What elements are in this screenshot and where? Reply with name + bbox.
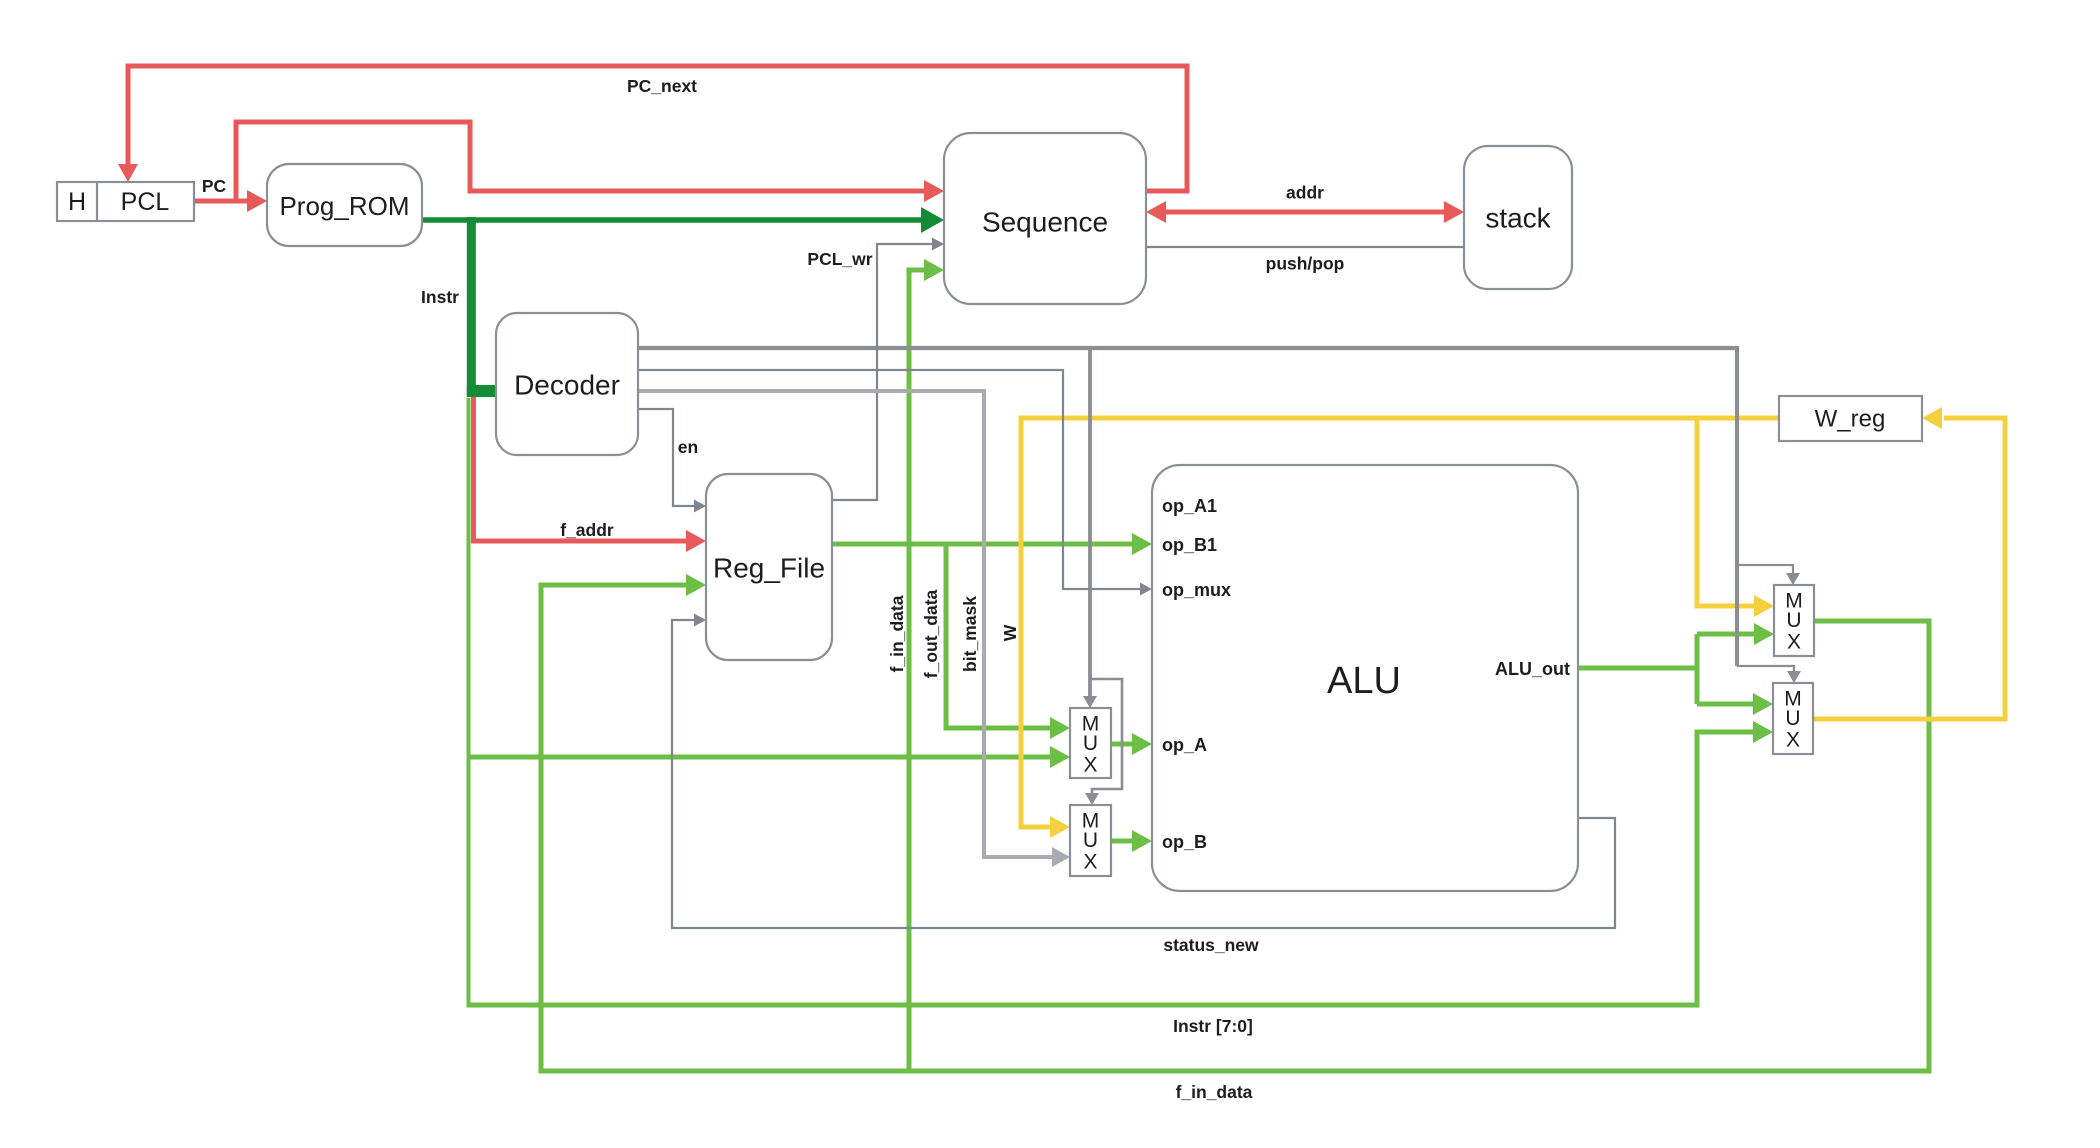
svg-text:W: W <box>1000 624 1020 641</box>
svg-text:op_A1: op_A1 <box>1162 496 1217 516</box>
svg-text:f_addr: f_addr <box>560 520 614 540</box>
arrowhead select into MUX1 top <box>1083 696 1097 708</box>
arrowhead Instr into Sequence <box>921 207 944 233</box>
svg-text:PC: PC <box>202 176 227 196</box>
arrowhead Instr literal into MUX4 <box>1753 721 1773 743</box>
wire W (yellow, W_reg to MUX2 and MUX3) <box>1021 418 1779 827</box>
arrowhead W into MUX3 <box>1754 595 1774 617</box>
arrowhead f_in_data into Reg_File <box>686 574 706 596</box>
wire ALU_out (light green, ALU to MUX3 and MUX4) <box>1578 634 1754 704</box>
svg-text:f_in_data: f_in_data <box>887 595 907 672</box>
arrowhead PCL_wr into Sequence <box>932 238 944 251</box>
mux MUX1 (op_A select) <box>1070 708 1111 778</box>
svg-text:X: X <box>1787 631 1801 654</box>
svg-text:PCL: PCL <box>121 188 170 216</box>
wire op_B1 (light green, Reg_File to ALU) <box>832 542 1132 547</box>
wire f_addr (red, Instr tap to Reg_File) <box>471 396 688 541</box>
arrowhead op_A into ALU <box>1132 733 1152 755</box>
arrowhead op_mux into ALU <box>1140 583 1152 596</box>
wire f_out_data (light green, op_B1 tap down to MUX1) <box>946 544 1050 728</box>
svg-text:W_reg: W_reg <box>1815 406 1886 433</box>
svg-text:status_new: status_new <box>1163 935 1259 955</box>
block Decoder <box>496 313 638 455</box>
svg-text:U: U <box>1083 829 1098 852</box>
svg-text:ALU_out: ALU_out <box>1495 659 1570 679</box>
svg-text:push/pop: push/pop <box>1266 254 1345 274</box>
arrowhead ALU_out into MUX3 <box>1754 623 1774 645</box>
wire decode bus (thick gray, Decoder to right MUX selects) <box>638 346 1794 671</box>
svg-text:addr: addr <box>1286 183 1324 203</box>
arrowhead W into MUX2 <box>1050 816 1070 838</box>
block Sequence <box>944 133 1146 304</box>
svg-text:Instr [7:0]: Instr [7:0] <box>1173 1016 1253 1036</box>
svg-text:f_out_data: f_out_data <box>921 589 941 678</box>
arrowhead f_in_data into Sequence <box>924 259 944 281</box>
svg-text:op_B1: op_B1 <box>1162 535 1217 555</box>
wire op select (gray vertical to MUX1/MUX2 tops) <box>1090 348 1122 795</box>
arrowhead W_new into W_reg <box>1922 407 1942 429</box>
svg-text:op_mux: op_mux <box>1162 580 1231 600</box>
arrowhead PC into Sequence <box>924 180 944 202</box>
wire PCL_wr (thin gray, Reg_File to Sequence) <box>832 244 932 500</box>
arrowhead bit_mask into MUX2 <box>1052 847 1070 867</box>
arrowhead op_B1 into ALU <box>1132 533 1152 555</box>
arrowhead en into Reg_File <box>694 500 706 513</box>
block stack <box>1464 146 1572 289</box>
svg-text:Sequence: Sequence <box>982 207 1108 238</box>
svg-text:Reg_File: Reg_File <box>713 553 825 584</box>
wire PC (red, PCL to Prog_ROM) <box>194 199 249 204</box>
svg-text:X: X <box>1786 729 1800 752</box>
wire Instr bus (dark green, Prog_ROM to Sequence) <box>422 217 923 223</box>
arrowhead addr into Sequence <box>1146 201 1166 223</box>
svg-text:f_in_data: f_in_data <box>1176 1082 1253 1102</box>
svg-text:U: U <box>1786 609 1801 632</box>
mux MUX2 (op_B select) <box>1070 805 1111 876</box>
wire MUX1 output op_A (light green) <box>1111 742 1132 747</box>
wire PC_next (red, Sequence to PCL) <box>128 66 1187 191</box>
svg-text:ALU: ALU <box>1327 660 1401 702</box>
arrowhead op_B into ALU <box>1132 830 1152 852</box>
register H|PCL <box>57 182 194 221</box>
svg-text:stack: stack <box>1485 203 1551 234</box>
arrowhead select into MUX2 top <box>1085 793 1099 805</box>
wire W_new (yellow, MUX4 out to W_reg) <box>1813 418 2005 719</box>
arrowhead PC_next into PCL <box>118 164 138 182</box>
wire addr (red double arrow Sequence-stack) <box>1164 210 1446 215</box>
arrowhead status_new into Reg_File <box>694 614 706 627</box>
wire PC to Sequence (red over Prog_ROM) <box>236 122 926 201</box>
svg-text:X: X <box>1083 754 1097 777</box>
wire MUX2 output op_B (light green) <box>1111 839 1132 844</box>
arrowhead select into MUX4 top <box>1787 671 1801 683</box>
svg-text:Instr: Instr <box>421 287 459 307</box>
register W_reg <box>1779 396 1922 441</box>
arrowhead addr into stack <box>1444 201 1464 223</box>
arrowhead Instr literal into MUX1 <box>1050 746 1070 768</box>
svg-text:H: H <box>68 188 86 216</box>
arrowhead select into MUX3 top <box>1786 573 1800 585</box>
svg-text:Decoder: Decoder <box>514 370 620 401</box>
svg-text:X: X <box>1083 851 1097 874</box>
block Reg_File <box>706 474 832 660</box>
block Prog_ROM <box>267 164 422 246</box>
svg-text:PCL_wr: PCL_wr <box>807 249 872 269</box>
wire push/pop (thin gray, Sequence to stack) <box>1146 246 1464 248</box>
block ALU <box>1152 465 1578 891</box>
wire Instr[7:0] literal (light green: down, to MUX1 and around bottom to MUX4) <box>467 398 1754 1005</box>
svg-text:op_B: op_B <box>1162 832 1207 852</box>
arrowhead PC into Prog_ROM <box>247 190 267 212</box>
mux MUX4 (W select) <box>1773 683 1813 754</box>
svg-text:bit_mask: bit_mask <box>960 596 980 672</box>
svg-text:Prog_ROM: Prog_ROM <box>279 191 409 221</box>
wire en (thin gray, Decoder to Reg_File) <box>638 409 694 506</box>
arrowhead ALU_out into MUX4 <box>1753 693 1773 715</box>
wire Instr bus drop to Decoder (dark green vertical) <box>467 217 496 397</box>
svg-text:op_A: op_A <box>1162 735 1207 755</box>
mux MUX3 (f_in_data select) <box>1774 585 1814 656</box>
arrowhead f_out_data into MUX1 <box>1050 717 1070 739</box>
wire op_mux (thin gray, Decoder to ALU) <box>638 370 1140 589</box>
svg-text:U: U <box>1083 732 1098 755</box>
wire status_new (thin gray, ALU around bottom to Reg_File) <box>672 620 1615 928</box>
svg-text:PC_next: PC_next <box>627 76 697 96</box>
svg-text:U: U <box>1785 707 1800 730</box>
wire bit_mask (medium gray, Decoder to MUX2) <box>638 391 1052 857</box>
svg-text:en: en <box>678 437 698 457</box>
arrowhead f_addr into Reg_File <box>686 530 706 552</box>
wire f_in_data (light green, MUX3 out around bottom to Reg_File and Sequence) <box>541 270 1929 1071</box>
